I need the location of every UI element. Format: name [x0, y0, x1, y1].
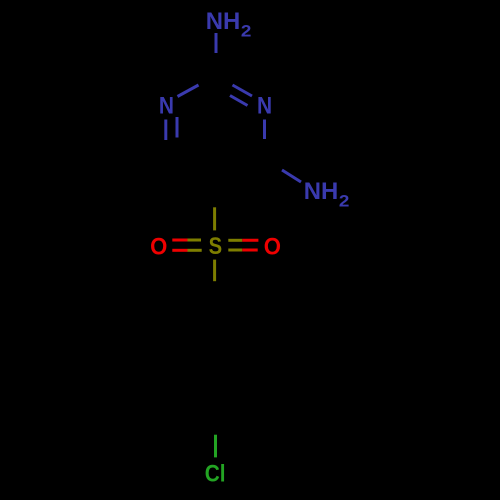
svg-text:S: S [209, 232, 223, 259]
svg-text:NH: NH [206, 8, 241, 35]
svg-text:Cl: Cl [205, 459, 226, 487]
svg-text:NH: NH [304, 178, 339, 205]
svg-text:2: 2 [339, 191, 350, 210]
svg-text:O: O [264, 232, 281, 259]
svg-text:2: 2 [241, 21, 252, 40]
svg-text:N: N [257, 91, 272, 119]
svg-text:N: N [159, 91, 174, 119]
svg-text:O: O [150, 232, 167, 259]
